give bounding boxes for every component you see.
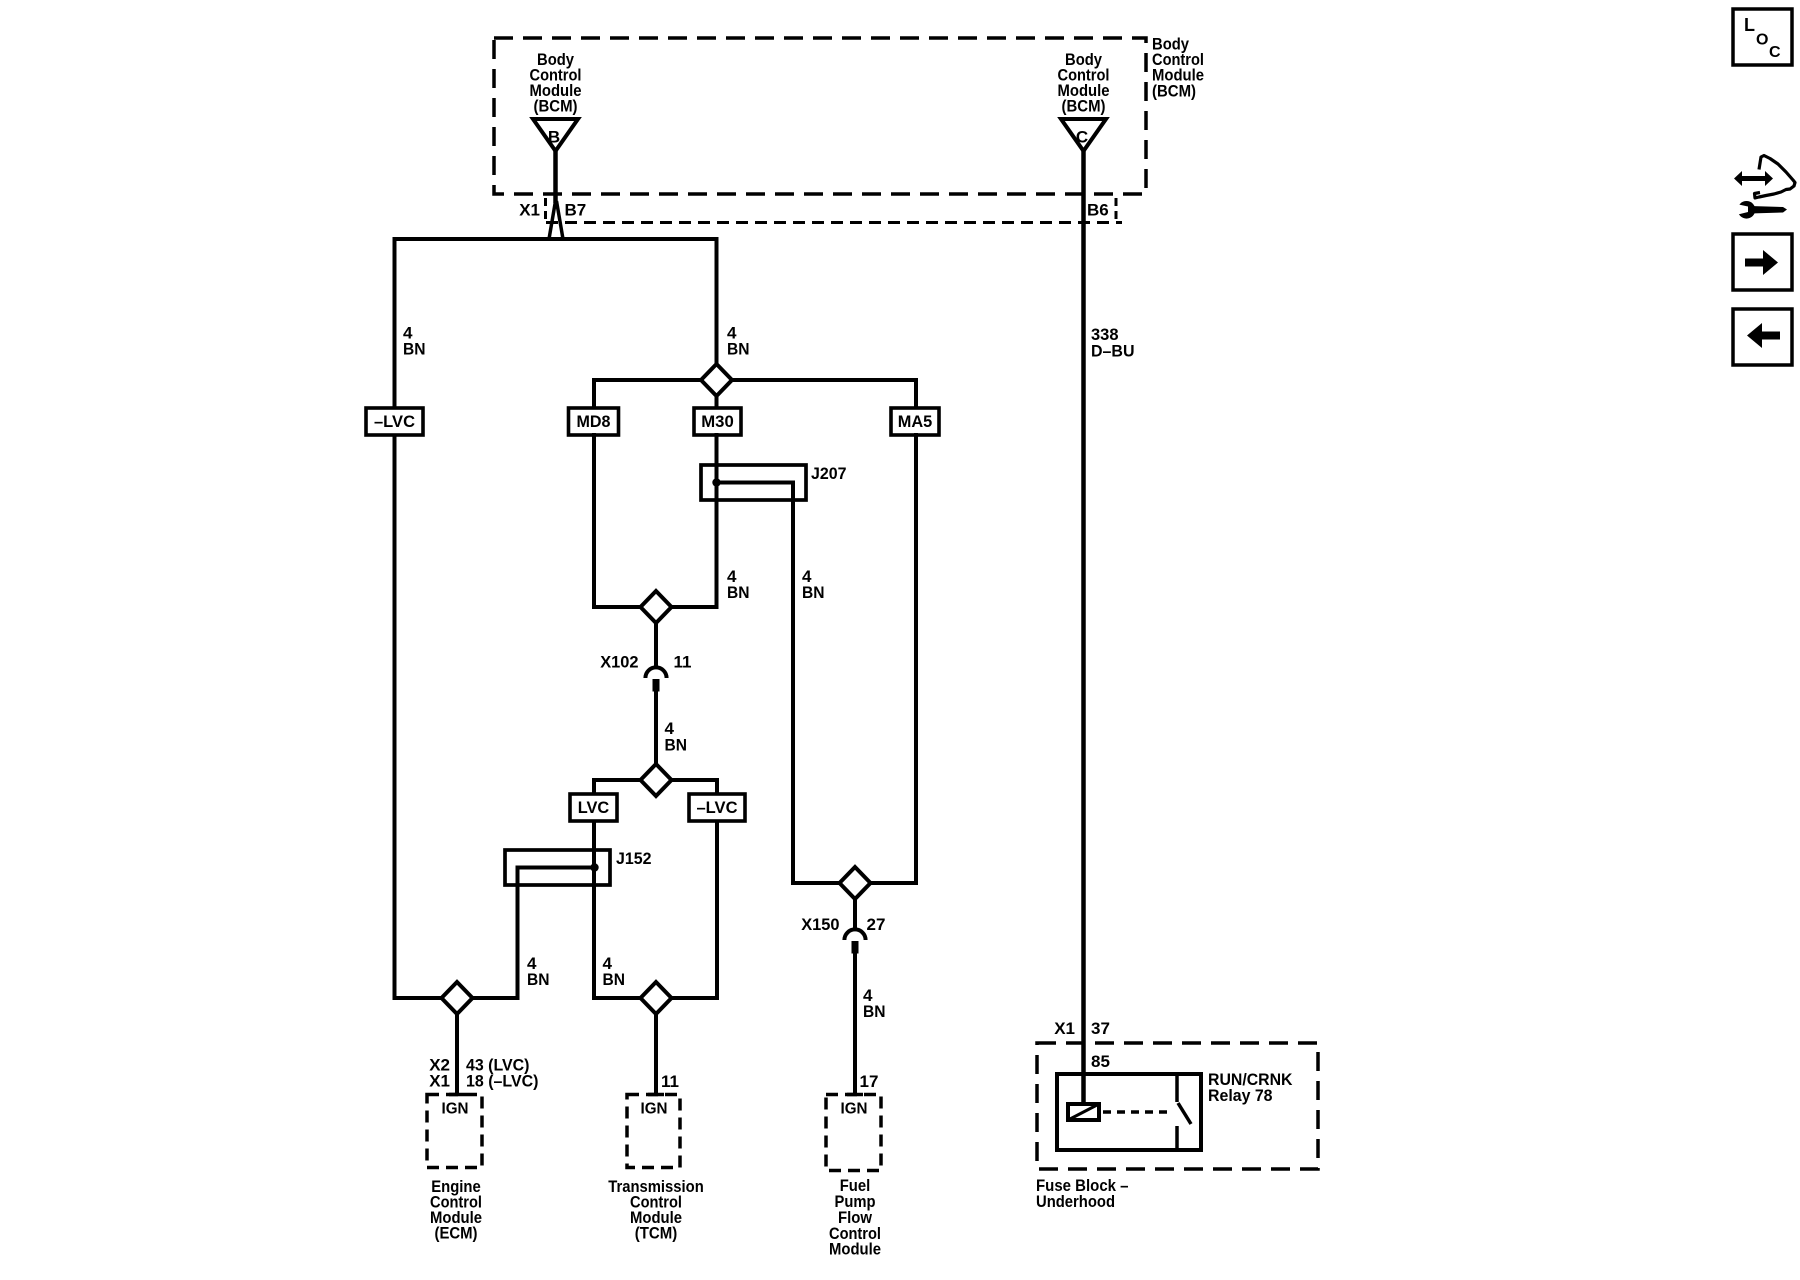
svg-text:27: 27 <box>867 915 886 934</box>
wire right branch down to splice diamond <box>715 237 719 368</box>
label 4 BN (X102 leg) <box>665 719 688 755</box>
connector code box MD8 <box>569 408 619 435</box>
connector code box M30 <box>694 408 741 435</box>
svg-text:MA5: MA5 <box>898 412 933 431</box>
svg-text:(BCM): (BCM) <box>1152 82 1196 101</box>
svg-text:17: 17 <box>860 1072 879 1091</box>
svg-text:LVC: LVC <box>578 798 610 817</box>
svg-text:X102: X102 <box>600 653 638 672</box>
svg-text:Module: Module <box>829 1240 881 1259</box>
splice diamond S1 <box>701 364 732 396</box>
connector code box -LVC (left branch) <box>366 408 423 435</box>
svg-text:J152: J152 <box>616 849 652 868</box>
svg-text:C: C <box>1076 128 1088 147</box>
label 4 BN (right branch) <box>727 324 750 359</box>
svg-text:(TCM): (TCM) <box>635 1224 678 1243</box>
splice pack J152 box <box>505 850 610 885</box>
svg-text:IGN: IGN <box>641 1101 668 1118</box>
FPFCM IGN dashed box <box>826 1095 881 1171</box>
label ECM pins X2 43 (LVC) / X1 18 (-LVC) <box>429 1056 538 1091</box>
splice diamond ECM <box>442 982 473 1014</box>
J152 bus bar branch wire to ECM diamond <box>470 868 595 999</box>
svg-text:11: 11 <box>661 1072 679 1091</box>
label 4 BN (X150 leg) <box>863 986 886 1021</box>
svg-text:(ECM): (ECM) <box>435 1224 478 1243</box>
icon back arrow box <box>1733 309 1792 365</box>
svg-text:B7: B7 <box>565 201 587 220</box>
wire splice diamond to MA5 <box>729 380 916 410</box>
wire -LVC down to TCM diamond <box>670 821 717 998</box>
splice diamond S2 <box>641 591 672 623</box>
inline connector X150 (socket and pin) <box>844 929 865 953</box>
svg-text:BN: BN <box>665 736 688 755</box>
label Fuse Block - Underhood <box>1036 1176 1129 1211</box>
svg-text:D–BU: D–BU <box>1091 342 1135 361</box>
svg-text:11: 11 <box>674 653 692 672</box>
wire MD8 down to splice diamond S2 <box>594 433 643 607</box>
svg-text:M30: M30 <box>701 412 734 431</box>
wire splice diamond to MD8 <box>594 380 704 410</box>
relay switch contact <box>1177 1074 1191 1150</box>
splice diamond TCM <box>641 982 672 1014</box>
wire TCM diamond down to IGN with end tick <box>648 1013 664 1095</box>
relay actuation dashed line <box>1103 1110 1172 1114</box>
label Body Control Module (BCM) above C <box>1058 50 1110 116</box>
wire M30 down through J207 to splice diamond S2 <box>669 433 717 607</box>
junction dot J152 <box>590 863 598 871</box>
svg-text:(BCM): (BCM) <box>1062 97 1106 116</box>
svg-text:O: O <box>1756 32 1768 49</box>
icon vehicle with arrow and wrench <box>1734 156 1795 219</box>
wire left branch down to ECM diamond <box>395 237 445 998</box>
connector code box -LVC (second) <box>689 794 745 821</box>
TCM IGN dashed box <box>627 1095 680 1168</box>
svg-text:85: 85 <box>1091 1052 1110 1071</box>
fuse block underhood dashed box <box>1037 1043 1318 1169</box>
svg-text:BN: BN <box>727 583 750 602</box>
svg-text:37: 37 <box>1091 1019 1110 1038</box>
connector triangle C <box>1061 119 1106 151</box>
svg-text:BN: BN <box>527 970 550 989</box>
ECM IGN dashed box <box>427 1095 482 1168</box>
label RUN/CRNK Relay 78 <box>1208 1070 1293 1105</box>
svg-text:C: C <box>1769 44 1781 61</box>
svg-text:L: L <box>1744 15 1755 35</box>
label 4 BN (TCM leg) <box>603 954 626 989</box>
wire MA5 down to X150 diamond <box>868 433 916 883</box>
label 338 D-BU <box>1091 325 1135 361</box>
splice pack J207 box <box>701 465 806 500</box>
splice diamond S3 <box>641 764 672 796</box>
svg-text:MD8: MD8 <box>577 412 611 431</box>
wire S2 down to X102 <box>654 621 658 667</box>
relay coil <box>1068 1104 1099 1120</box>
label Body Control Module (BCM) above B <box>530 50 582 116</box>
wire X150 diamond down to connector <box>853 898 857 929</box>
svg-text:(BCM): (BCM) <box>534 97 578 116</box>
RUN/CRNK relay 78 box <box>1057 1074 1201 1150</box>
wire X102 down to splice diamond S3 <box>654 691 658 768</box>
wire X150 down to FPFCM IGN with end tick <box>847 953 863 1095</box>
svg-text:J207: J207 <box>811 464 847 483</box>
label 4 BN (left branch) <box>403 324 426 359</box>
svg-text:B6: B6 <box>1087 201 1109 220</box>
svg-text:Underhood: Underhood <box>1036 1192 1115 1211</box>
connector triangle B <box>533 119 578 151</box>
wire horizontal bus from fork <box>395 237 717 241</box>
inline connector X102 (socket and pin) <box>645 667 666 691</box>
wire from B with split fork <box>549 151 563 239</box>
wire ECM diamond down to IGN with end tick <box>449 1013 465 1095</box>
label 4 BN (ECM leg) <box>527 954 550 989</box>
svg-text:X150: X150 <box>801 915 839 934</box>
wire splice diamond to M30 <box>715 392 719 410</box>
connector code box LVC <box>570 794 617 821</box>
BCM X1 connector dashed boundary line <box>546 198 1123 223</box>
svg-text:X1: X1 <box>519 201 540 220</box>
connector code box MA5 <box>891 408 939 435</box>
junction dot J207 <box>712 478 720 486</box>
J207 bus bar branch wire to X150 diamond <box>717 483 843 884</box>
wire S3 to -LVC <box>669 780 717 796</box>
svg-text:IGN: IGN <box>841 1101 868 1118</box>
BCM module dashed outline box <box>494 38 1146 194</box>
svg-text:18 (–LVC): 18 (–LVC) <box>466 1072 539 1091</box>
svg-text:BN: BN <box>863 1002 886 1021</box>
wire from connector C down to relay coil <box>1081 151 1086 1104</box>
icon LOC box <box>1733 9 1792 65</box>
splice diamond X150 <box>840 867 871 899</box>
label 4 BN (M30 leg) <box>727 567 750 602</box>
svg-text:–LVC: –LVC <box>374 412 415 431</box>
icon forward arrow box <box>1733 234 1792 290</box>
svg-text:BN: BN <box>727 340 750 359</box>
svg-text:Relay 78: Relay 78 <box>1208 1086 1273 1105</box>
svg-text:BN: BN <box>603 970 626 989</box>
svg-text:X1: X1 <box>429 1072 450 1091</box>
label Transmission Control Module (TCM) <box>608 1177 704 1243</box>
svg-text:–LVC: –LVC <box>697 798 738 817</box>
svg-text:X1: X1 <box>1054 1019 1075 1038</box>
label Body Control Module (BCM) right of box <box>1152 35 1204 101</box>
svg-text:BN: BN <box>802 583 825 602</box>
svg-text:IGN: IGN <box>442 1101 469 1118</box>
svg-text:B: B <box>548 128 560 147</box>
svg-text:BN: BN <box>403 340 426 359</box>
label 4 BN (J207 leg) <box>802 567 825 602</box>
label Engine Control Module (ECM) <box>430 1177 482 1243</box>
label Fuel Pump Flow Control Module <box>829 1176 881 1259</box>
wire LVC down through J152 to TCM diamond <box>594 821 642 998</box>
wire S3 to LVC <box>594 780 643 796</box>
